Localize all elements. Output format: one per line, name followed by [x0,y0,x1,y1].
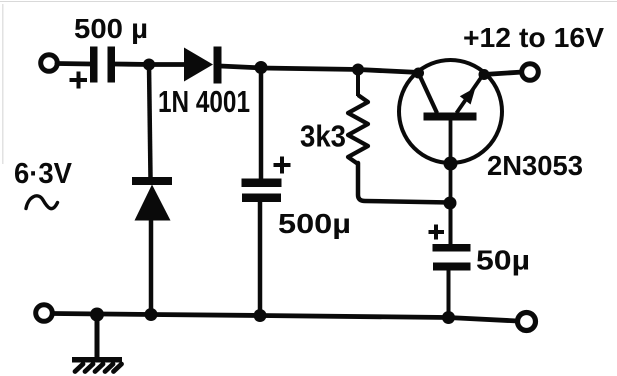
capacitor C3 50u (output filter, polarized) [429,203,471,318]
ground node (bottom rail to ground stub) [90,308,104,322]
bottom-left terminal [36,305,53,322]
svg-text:3k3: 3k3 [300,119,346,154]
capacitor C1 500u (series input, polarized) [70,47,116,89]
label 6.3V (AC input) [14,158,73,190]
value label 2N3053 (Q1) [487,150,583,181]
collector junction (Q1 collector to top rail) [413,68,424,79]
svg-text:1N 4001: 1N 4001 [158,84,250,119]
node at Q1 circle bottom (base lead crossing) [444,157,458,171]
svg-text:+12 to 16V: +12 to 16V [463,22,604,53]
wire node B to node C [261,68,360,70]
diode D2 (vertical shunt rectifier, pointing up) [132,65,172,316]
node F (C2 bottom on rail) [254,309,267,322]
capacitor C2 500u (vertical reservoir, polarized) [242,68,291,316]
svg-text:500 µ: 500 µ [74,13,148,44]
value label 50u (C3) [476,245,530,276]
output terminal (top right) [522,64,539,81]
label +12 to 16V (output voltage) [463,22,604,53]
node A (junction of C1, D1 anode, D2 cathode branch) [143,59,155,71]
wire node C to collector junction [358,70,420,73]
transistor Q1 2N3053 (NPN, circled) [399,60,502,203]
wire D1 to node B [220,66,263,68]
emitter node (Q1 emitter to output wire) [479,69,490,80]
diode D1 1N4001 (horizontal, pointing right) [184,47,222,84]
bottom rail wire [53,314,518,322]
wire C1 to node A [114,62,150,67]
node B (top of C2) [255,61,268,74]
resistor R1 3k3 (vertical zigzag) [348,70,450,203]
value label 500u (C1) [74,13,148,44]
bottom-right terminal [518,313,536,331]
svg-text:6·3V: 6·3V [14,158,73,190]
svg-text:50µ: 50µ [476,245,530,276]
svg-text:500µ: 500µ [278,208,351,239]
svg-text:2N3053: 2N3053 [487,150,583,181]
value label 500u (C2) [278,208,351,239]
input terminal (top left) [41,55,58,72]
node D (junction of R1 bottom, Q1 base line, C3 top) [444,197,457,210]
node E (D2 bottom on rail) [145,308,158,321]
node C (top of R1) [352,64,364,76]
value label 3k3 (R1) [300,119,346,154]
wire node A to D1 [148,62,186,67]
wire input terminal to C1 [57,61,92,66]
ground [72,314,122,372]
AC sine symbol [26,196,58,209]
wire emitter node to output terminal [484,72,523,75]
value label 1N4001 (D1) [158,84,250,119]
node G (C3 bottom on rail) [442,311,455,324]
